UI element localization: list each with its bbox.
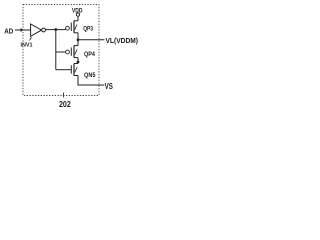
junction node dot: [54, 28, 57, 31]
dashed box 202: [23, 5, 99, 96]
wire QP4 drain to QN5 drain: [77, 58, 79, 64]
wire QN5 source to VS rail: [78, 76, 104, 86]
inverter INV1: [31, 24, 42, 36]
wire gate bus vertical: [55, 30, 57, 70]
leader line 202: [63, 93, 65, 98]
wire node to VL(VDDM): [78, 39, 105, 41]
wire inverter output to QP3 gate: [46, 29, 66, 31]
node VL junction dot: [77, 38, 80, 41]
arrowhead AD: [21, 28, 24, 32]
wire to QP4 gate: [56, 51, 66, 53]
wire AD input: [15, 29, 31, 31]
transistor QN5: [71, 64, 78, 76]
transistor QP3: [66, 21, 78, 33]
svg-text:VL(VDDM): VL(VDDM): [106, 38, 139, 45]
wire QP3 drain to node: [77, 33, 79, 46]
wire to QN5 gate: [56, 69, 72, 71]
svg-text:QP4: QP4: [84, 51, 95, 58]
inverter output bubble: [42, 28, 46, 32]
svg-text:VS: VS: [105, 82, 113, 91]
svg-text:AD: AD: [4, 26, 13, 35]
transistor QP4: [66, 46, 78, 58]
svg-text:INV1: INV1: [21, 43, 33, 49]
svg-text:202: 202: [59, 99, 71, 109]
svg-text:QP3: QP3: [83, 25, 93, 32]
leader line INV1: [30, 37, 32, 40]
svg-text:QN5: QN5: [84, 72, 96, 79]
VDD terminal circle: [76, 13, 79, 16]
junction dot mid: [77, 61, 80, 64]
wire VDD to QP3: [77, 16, 79, 21]
